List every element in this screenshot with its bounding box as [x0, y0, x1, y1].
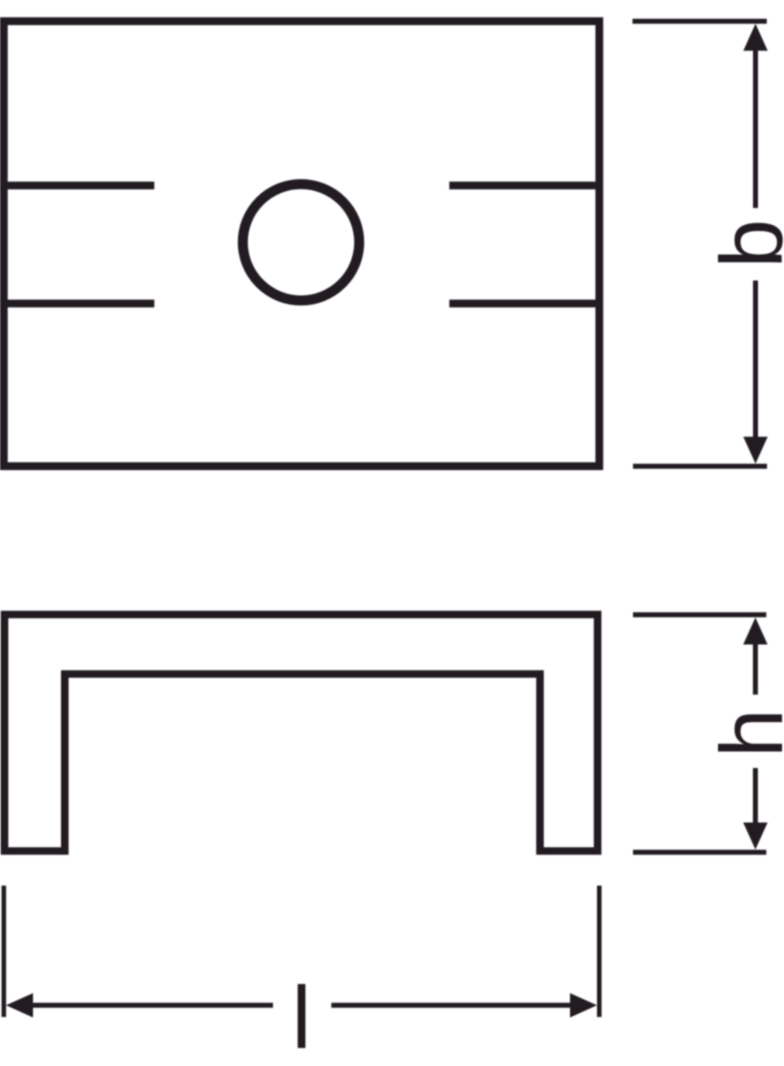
left slot lower line [0, 300, 154, 308]
front view outline [5, 615, 598, 852]
extension line left l [1, 886, 6, 1017]
dimension line b lower shaft [753, 281, 758, 440]
dimension line h upper shaft [753, 644, 758, 695]
arrowhead b down [743, 437, 767, 464]
arrowhead l left [6, 993, 33, 1017]
arrowhead h down [743, 823, 767, 850]
arrowhead l right [570, 993, 597, 1017]
top view outline [4, 21, 600, 466]
dimension line l right shaft [331, 1003, 572, 1008]
dimension line h lower shaft [753, 768, 758, 825]
mounting hole [243, 184, 359, 300]
arrowhead b up [743, 24, 767, 51]
extension line right l [597, 886, 602, 1017]
svg-text:b: b [702, 219, 784, 268]
svg-text:h: h [702, 709, 784, 758]
svg-text:l: l [292, 968, 312, 1066]
extension line bottom h [633, 850, 766, 855]
right slot upper line [449, 182, 599, 190]
arrowhead h up [743, 618, 767, 645]
right slot lower line [449, 300, 599, 308]
left slot upper line [0, 182, 154, 190]
dimension line b upper shaft [753, 48, 758, 208]
extension line top h [633, 612, 766, 617]
extension line top b [633, 19, 767, 24]
dimension line l left shaft [31, 1003, 273, 1008]
extension line bottom b [633, 464, 767, 469]
